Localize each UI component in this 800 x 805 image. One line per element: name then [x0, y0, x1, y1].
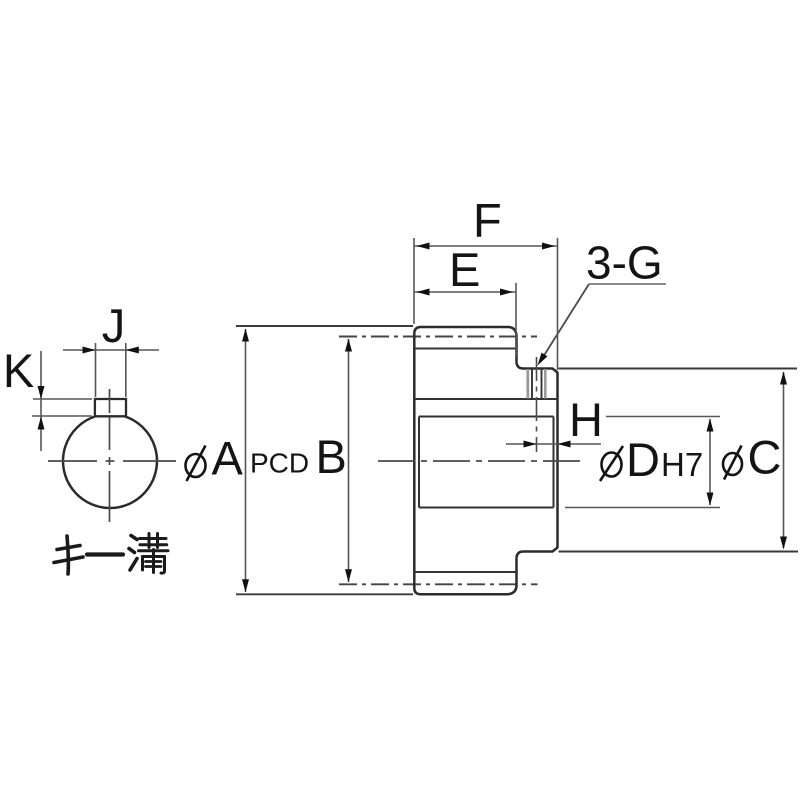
dimension J extension lines: [96, 343, 126, 397]
circle vertical centerline: [109, 389, 111, 522]
label keyway (キー溝) drawn strokes: [54, 534, 168, 575]
dimension E arrowheads: [417, 289, 430, 296]
pitch line top (dash-dot): [339, 336, 537, 338]
label phiD symbol: [600, 446, 623, 481]
svg-text:3-G: 3-G: [586, 237, 663, 289]
dimension J line: [63, 349, 159, 351]
tooth root line top: [414, 347, 516, 349]
bore top line: [419, 415, 554, 417]
dimension PCD B line: [348, 339, 350, 582]
dimension F arrowheads: [417, 243, 430, 250]
main centerline (dash-dot): [378, 460, 580, 462]
circle horizontal centerline: [48, 460, 176, 462]
label phiC symbol: [723, 446, 742, 480]
dimension E right extension: [515, 283, 517, 357]
dimension phiA line: [245, 329, 247, 592]
dimension phiD arrowheads: [707, 419, 714, 432]
dimension H line: [506, 443, 601, 445]
dimension PCD B arrowheads: [345, 339, 352, 352]
svg-text:E: E: [449, 243, 480, 296]
dimension F/E left extension: [413, 238, 415, 324]
dimension phiC line: [783, 372, 785, 548]
pitch line bottom (dash-dot): [339, 583, 538, 585]
svg-text:A: A: [212, 432, 244, 485]
tooth root line bottom: [414, 571, 516, 573]
dimension phiD line: [709, 419, 711, 505]
dimension phiD extension top: [606, 416, 720, 418]
set screw tap hole: [528, 369, 546, 399]
dimension J arrowheads: [83, 347, 96, 354]
tap hole axis (dash-dot): [536, 357, 538, 452]
dimension phiC arrowheads: [780, 372, 787, 385]
svg-text:F: F: [473, 194, 502, 247]
svg-text:D: D: [626, 433, 660, 486]
hub diameter extension bottom (phiC): [559, 551, 799, 553]
bore chamfer right: [553, 417, 555, 508]
svg-text:J: J: [102, 299, 126, 352]
svg-text:K: K: [3, 344, 34, 397]
bore chamfer left: [418, 417, 420, 508]
dimension K line: [40, 351, 42, 451]
keyway slot (left view): [95, 399, 126, 416]
label phiA symbol: [186, 446, 206, 482]
dimension F right extension: [557, 238, 559, 370]
hub diameter extension top (phiC): [559, 368, 798, 370]
dimension phiA arrowheads: [242, 329, 249, 342]
3-G leader arrowhead: [538, 353, 548, 366]
dimension F line: [414, 245, 558, 247]
dimension K extension lines: [32, 399, 92, 416]
dimension E line: [414, 291, 516, 293]
3-G leader diagonal: [541, 284, 590, 361]
3-G leader underline: [589, 283, 666, 285]
svg-text:H7: H7: [661, 446, 703, 483]
svg-text:H: H: [569, 393, 603, 446]
svg-text:PCD: PCD: [250, 448, 309, 479]
keyway line (section): [414, 398, 558, 400]
svg-text:B: B: [316, 430, 347, 483]
dimension K arrowheads: [38, 386, 45, 399]
dimension phiD extension bottom: [565, 507, 720, 509]
dimension H arrowheads: [524, 441, 537, 448]
svg-text:C: C: [748, 431, 782, 484]
bore bottom line: [419, 506, 554, 508]
dimension phiA extension lines: [236, 326, 413, 594]
gear body outline (side view): [414, 327, 557, 594]
bore circle (left view): [63, 417, 157, 509]
